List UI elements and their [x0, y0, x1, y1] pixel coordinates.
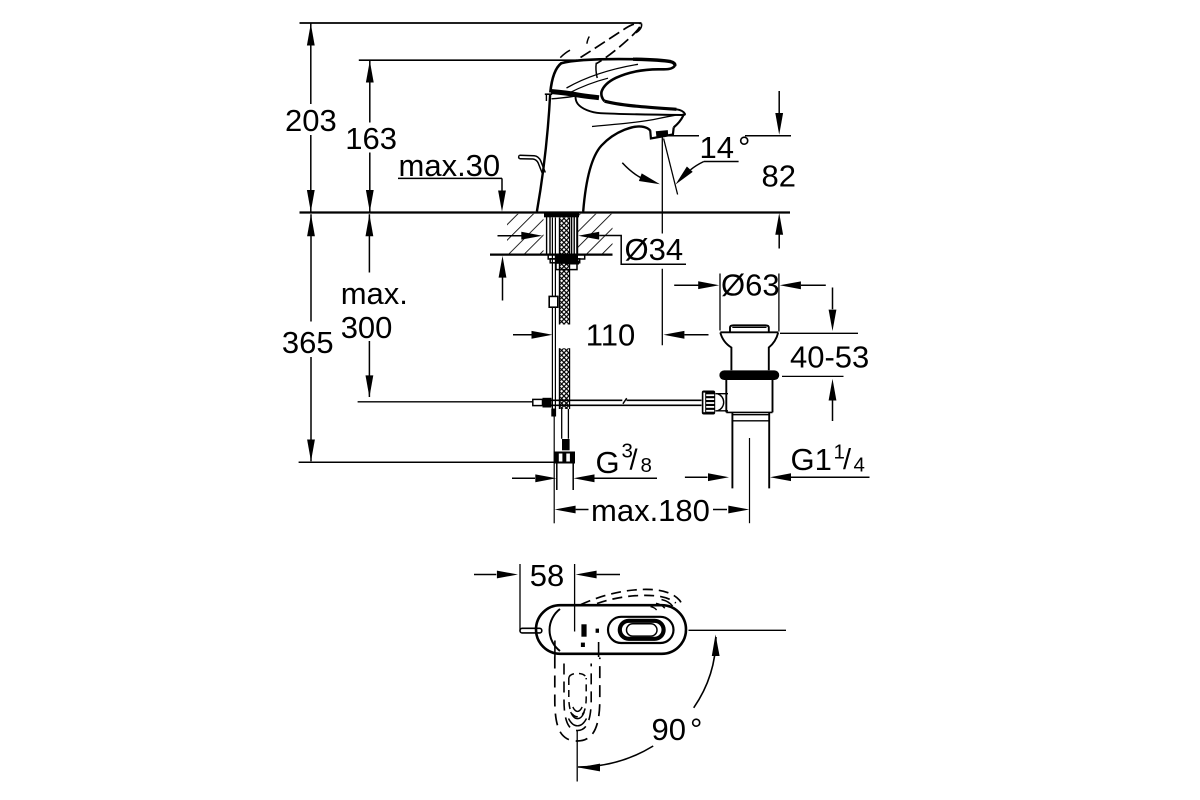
- countertop bottom line: [490, 253, 613, 255]
- 90 arc: [694, 637, 716, 708]
- svg-text:G: G: [596, 445, 620, 480]
- raised lever dashed: [581, 23, 642, 57]
- loop inner: [627, 624, 658, 636]
- 82 dim: [778, 91, 780, 249]
- max.30 leader: [398, 178, 502, 192]
- spout tip: [674, 115, 684, 128]
- max.30 lower arrow: [502, 277, 504, 301]
- max.180 dim: [555, 506, 576, 514]
- body left edge: [537, 94, 550, 212]
- water stream extension line: [661, 136, 663, 345]
- max180 left extension: [553, 417, 555, 524]
- body right edge / spout sweep: [583, 126, 650, 211]
- aerator: [650, 127, 674, 138]
- waste body: [726, 380, 772, 412]
- svg-text:58: 58: [530, 558, 564, 593]
- reference line 365 bottom: [299, 461, 556, 463]
- lever gap shadow: [551, 92, 599, 98]
- dashed down handle middle: [564, 664, 591, 731]
- dim line 365: [310, 214, 312, 461]
- dashed down handle outer: [555, 657, 600, 742]
- G1 1/4 dim: [685, 476, 708, 478]
- svg-text:365: 365: [282, 325, 334, 360]
- supply pipe: [557, 463, 573, 490]
- dim line 203: [310, 23, 312, 213]
- shank walls: [547, 217, 575, 255]
- hatch left: [507, 214, 544, 254]
- hose lower end: [562, 409, 569, 439]
- 110 dim: [513, 334, 532, 336]
- G3/8 dim: [512, 477, 535, 479]
- lever interior lines: [567, 64, 639, 88]
- svg-text:203: 203: [285, 103, 337, 138]
- svg-text:Ø34: Ø34: [625, 232, 684, 267]
- dim line max.300: [368, 214, 370, 397]
- pop-up pin: [520, 628, 542, 633]
- reference line max.300: [358, 401, 533, 403]
- G_DIMS_LEFT: [299, 23, 642, 462]
- braided hose: [559, 218, 569, 325]
- 40-53 dim: [832, 288, 834, 422]
- svg-text:max.: max.: [341, 276, 408, 311]
- indicator marks: [581, 624, 586, 636]
- G_DRAIN: [674, 274, 858, 524]
- shank top strip: [544, 213, 579, 218]
- plug knob: [730, 325, 769, 332]
- knurled knob: [702, 391, 715, 415]
- svg-text:/: /: [843, 444, 852, 476]
- lever outline: [550, 59, 675, 101]
- pop-up rod knob at back: [520, 155, 546, 172]
- base arc: [550, 609, 560, 651]
- loop ring: [620, 621, 664, 639]
- 58 dim: [474, 574, 496, 576]
- svg-text:max.30: max.30: [399, 148, 501, 183]
- lever wing top edge thick: [605, 101, 677, 109]
- mounting nut: [550, 259, 580, 263]
- G_TOPVIEW: [474, 564, 786, 782]
- 58 extension lines: [520, 564, 575, 632]
- 90 reference line: [689, 629, 787, 631]
- centerline below: [576, 731, 578, 782]
- ball joint: [715, 394, 728, 411]
- svg-text:90°: 90°: [652, 712, 703, 747]
- flange top extension: [780, 332, 858, 334]
- hatch right: [578, 214, 613, 254]
- lever wing tip and underside: [575, 96, 684, 115]
- dashed raised handle: [581, 589, 681, 608]
- Ø63 extension lines: [720, 274, 779, 332]
- G_ANGLE14: [622, 91, 791, 345]
- G3/8 nut: [554, 452, 575, 464]
- ripple arcs: [573, 707, 582, 711]
- G_DIM_MISC: [498, 232, 870, 514]
- Ø63 dim: [674, 284, 699, 286]
- stream slant line: [664, 139, 678, 195]
- G_SHANK: [533, 213, 702, 524]
- 82 reference line: [665, 135, 791, 137]
- svg-text:300: 300: [341, 310, 393, 345]
- svg-text:G1: G1: [791, 442, 832, 477]
- seal extension: [782, 375, 844, 377]
- arc left: [622, 163, 641, 178]
- dashed down handle inner: [569, 673, 586, 678]
- svg-text:4: 4: [854, 454, 865, 477]
- G_FAUCET: [519, 23, 685, 211]
- lever pivot tick: [545, 93, 552, 95]
- pop-up rod: [552, 218, 555, 413]
- svg-text:/: /: [630, 445, 639, 477]
- leader 14: [704, 161, 739, 163]
- top reference line 203: [300, 22, 642, 24]
- dim line 163: [369, 60, 371, 212]
- tailpipe: [732, 412, 769, 488]
- svg-text:40-53: 40-53: [790, 339, 869, 374]
- countertop surface line: [300, 211, 791, 213]
- seal ring: [719, 370, 779, 380]
- svg-text:14°: 14°: [700, 130, 751, 165]
- G_TEXTS_LEFT: [282, 103, 500, 360]
- svg-text:82: 82: [762, 158, 796, 193]
- svg-text:8: 8: [641, 454, 652, 477]
- Ø34 leader: [498, 235, 522, 237]
- spout inner line: [592, 115, 676, 126]
- G_COUNTERTOP: [300, 213, 791, 255]
- svg-text:max.180: max.180: [591, 493, 710, 528]
- svg-text:Ø63: Ø63: [721, 268, 780, 303]
- reference line 163: [359, 59, 577, 61]
- svg-text:163: 163: [345, 121, 397, 156]
- handle pill: [536, 605, 686, 654]
- linkage rod: [533, 399, 543, 405]
- flange: [720, 331, 778, 333]
- loop outer: [608, 617, 674, 643]
- centerline: [749, 438, 751, 523]
- svg-text:110: 110: [586, 317, 635, 352]
- mounting washer: [548, 255, 585, 259]
